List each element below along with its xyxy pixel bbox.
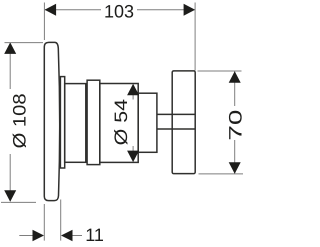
end box <box>138 93 157 152</box>
main cylinder <box>100 84 138 163</box>
svg-text:103: 103 <box>104 2 134 22</box>
dim Ø108 line lower segment <box>9 154 11 201</box>
svg-text:11: 11 <box>85 225 104 245</box>
svg-text:Ø 54: Ø 54 <box>111 99 131 145</box>
dim 70 upper segment <box>234 71 236 106</box>
dim 11 left tail <box>19 235 33 237</box>
dim 103 right arrow <box>184 4 196 16</box>
dim 11 right extension line <box>60 200 62 241</box>
dim 70 down arrow <box>229 162 241 174</box>
dim Ø108 down arrow <box>4 190 16 202</box>
dim Ø108 up arrow <box>4 42 16 54</box>
dim Ø54 line lower segment <box>132 146 134 152</box>
dim 70 top extension line <box>198 70 242 72</box>
body section <box>65 84 86 163</box>
svg-text:70: 70 <box>225 110 245 141</box>
dim Ø54 line upper segment <box>132 94 134 100</box>
dim 11 right tail <box>73 235 83 237</box>
dim Ø54 up arrow <box>127 84 139 96</box>
svg-text:Ø 108: Ø 108 <box>10 93 30 148</box>
dim 70 bottom extension line <box>199 173 244 175</box>
dim 103 right extension line <box>194 3 196 71</box>
dim 103 line left segment <box>45 9 101 11</box>
ring sleeve <box>60 77 64 168</box>
dim 70 lower segment <box>234 140 236 174</box>
dim 11 left-pointing arrow <box>61 230 73 242</box>
dim Ø108 top extension line <box>5 42 44 44</box>
dim Ø108 line upper segment <box>9 43 11 89</box>
dim 103 left arrow <box>45 4 57 16</box>
dim 103 line right segment <box>137 9 195 11</box>
escutcheon plate <box>44 42 59 200</box>
dim Ø108 bottom extension line <box>1 201 36 203</box>
dim 11 right-pointing arrow <box>33 230 45 242</box>
ring 2 <box>87 80 100 164</box>
stem top line <box>157 113 195 115</box>
dim 103 left extension line <box>43 3 45 41</box>
stem bottom line <box>157 128 195 130</box>
dim 11 left extension line <box>43 204 45 241</box>
dim 70 up arrow <box>229 71 241 83</box>
handle bar <box>172 71 195 174</box>
dim Ø54 down arrow <box>127 151 139 163</box>
